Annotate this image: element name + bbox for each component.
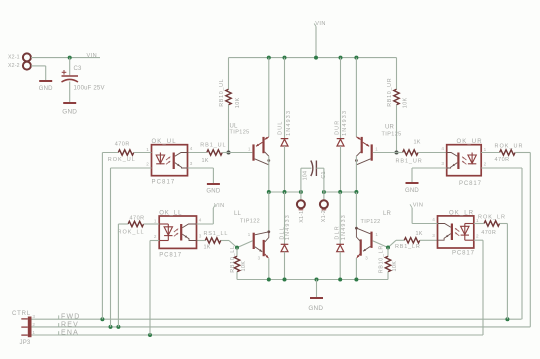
svg-text:LR: LR [383, 211, 392, 217]
svg-text:1: 1 [375, 232, 378, 237]
wire UL base [229, 152, 253, 154]
svg-text:TIP122: TIP122 [361, 219, 381, 225]
wire LR emitter down [355, 258, 357, 280]
connector X2 pin X2-2 [23, 62, 31, 70]
svg-text:RB10_LL: RB10_LL [230, 245, 236, 272]
svg-text:OK_UL: OK_UL [152, 139, 177, 145]
wire C1 left lead [300, 168, 302, 192]
wire ground rail [237, 279, 388, 281]
wire LR base link [396, 239, 404, 241]
node UR base junction [395, 151, 399, 155]
wire RB1_UR leads [397, 152, 403, 154]
node REV junctions [109, 325, 113, 329]
wire OK_UL pin3 to ground [188, 167, 214, 169]
ground (main) [310, 297, 323, 299]
svg-text:ROK_LL: ROK_LL [118, 230, 145, 236]
transistor UL TIP125 (PNP darlington) [252, 137, 264, 161]
wire RB10_UL to UL base node [228, 105, 230, 153]
wire OK_UL pin2 to REV drop [111, 167, 152, 169]
svg-text:2: 2 [476, 234, 479, 239]
capacitor C3 plus sign [62, 70, 67, 75]
svg-text:PC817: PC817 [159, 253, 182, 259]
svg-text:3: 3 [199, 234, 202, 239]
wire DUL top [284, 58, 286, 138]
svg-text:RB1_UL: RB1_UL [200, 142, 226, 148]
wire UL collector down [268, 156, 270, 192]
wire RB10_UR to UR base node [396, 105, 398, 153]
wire net ENA [32, 334, 484, 336]
svg-text:10K: 10K [392, 261, 398, 272]
wire net FWD [32, 318, 522, 320]
ground for X2-2 [39, 80, 52, 82]
svg-text:1: 1 [375, 146, 378, 151]
OK_LL light arrows [174, 229, 178, 232]
wire DLL top [284, 192, 286, 244]
wire C3 bottom [69, 82, 71, 103]
svg-text:3: 3 [190, 161, 193, 166]
svg-text:1K: 1K [414, 139, 421, 145]
wire RB1_LR right lead [420, 239, 438, 241]
resistor ROK_UL 470R [118, 150, 134, 155]
wire OK_LR pin1 to FWD drop [474, 223, 484, 225]
wire X2-2 to ground [31, 65, 46, 67]
svg-text:4: 4 [432, 217, 435, 222]
svg-text:RB1_LR: RB1_LR [395, 244, 421, 250]
wire OK_LR pin4 to VIN [412, 223, 437, 225]
wire LL collector from motor rail [268, 192, 270, 232]
wire OK_LR pin2 drop to ENA [482, 240, 484, 335]
wire DLL bottom [284, 252, 286, 280]
svg-text:1: 1 [32, 330, 35, 335]
svg-text:VIN: VIN [87, 53, 98, 59]
svg-text:1: 1 [484, 147, 487, 152]
svg-text:1N4933: 1N4933 [342, 110, 348, 136]
svg-text:4: 4 [199, 218, 202, 223]
wire OK_LL pin2 drop to ENA [149, 241, 151, 336]
svg-text:2: 2 [484, 161, 487, 166]
resistor RB1_LR 1K [404, 238, 420, 243]
capacitor C3 plates [62, 75, 79, 77]
wire UR emitter to rail [355, 58, 357, 137]
wire rail left drop [228, 58, 230, 90]
svg-text:1N4933: 1N4933 [285, 214, 291, 240]
svg-text:1K: 1K [202, 158, 209, 164]
resistor RB10_LL 10K [234, 256, 239, 272]
wire OK_LL pin1 drop to REV [117, 224, 119, 327]
resistor ROK_LL 470R [128, 221, 143, 226]
connector JP3 [28, 317, 32, 338]
svg-text:FWD: FWD [61, 314, 81, 321]
svg-text:GND: GND [206, 189, 220, 195]
node FWD junctions [100, 317, 104, 321]
svg-text:2: 2 [154, 234, 157, 239]
svg-text:C3: C3 [74, 66, 83, 72]
transistor LL TIP122 (NPN darlington) [253, 233, 265, 256]
svg-text:GND: GND [39, 86, 53, 92]
diode DLL 1N4933 [281, 244, 289, 251]
wire LR collector from motor rail [355, 192, 357, 228]
wire OK_UR pin2 to FWD drop [481, 167, 522, 169]
wire C3 top [69, 58, 71, 76]
connector X2 pin X2-1 [23, 53, 31, 61]
wire VIN stub [315, 27, 317, 58]
svg-text:10K: 10K [241, 261, 247, 272]
ground for OK_UR [406, 182, 419, 184]
svg-text:104: 104 [303, 171, 309, 181]
OK_LR phototransistor [451, 224, 453, 241]
svg-text:1N4933: 1N4933 [341, 214, 347, 240]
svg-text:X1-1: X1-1 [299, 211, 305, 223]
svg-text:3: 3 [32, 314, 35, 319]
wire rail right drop [396, 58, 398, 90]
svg-text:2: 2 [146, 161, 149, 166]
OK_LR internal LED [461, 224, 474, 241]
diode DLR 1N4933 [336, 244, 344, 251]
wire motor rail left [269, 191, 301, 193]
svg-text:OK_UR: OK_UR [457, 139, 483, 145]
wire RB10_LR top [387, 248, 389, 257]
svg-text:JP3: JP3 [20, 340, 31, 346]
wire OK_LR pin1 drop to FWD [506, 224, 508, 320]
wire DUR bottom [340, 146, 342, 192]
svg-text:DUL: DUL [277, 121, 283, 135]
svg-text:GND: GND [308, 305, 323, 312]
svg-text:RB10_LR: RB10_LR [379, 245, 385, 273]
svg-text:VIN: VIN [315, 21, 326, 27]
svg-text:4: 4 [190, 146, 193, 151]
wire UR base [373, 152, 397, 154]
svg-text:RB10_UL: RB10_UL [219, 79, 225, 107]
wire DUR top [340, 58, 342, 138]
wire OK_LL pin2 to ENA drop [150, 240, 159, 242]
wire RS1_LL left lead [197, 240, 206, 242]
resistor ROK_UR 470R [500, 150, 516, 155]
svg-text:1: 1 [248, 146, 251, 151]
resistor ROK_LR 470R [484, 221, 500, 226]
connector X1 pin X1-1 [300, 192, 302, 200]
node motor rail left junctions [267, 190, 271, 194]
svg-text:X2-1: X2-1 [8, 55, 20, 61]
op-amp OK_LL PC817 box [159, 216, 196, 248]
resistor RB1_UL 1K [207, 150, 222, 155]
connector X1 pin X1-2 [323, 192, 325, 200]
wire OK_UL pin1 drop to FWD [101, 153, 103, 320]
resistor RB10_LR 10K [385, 256, 390, 272]
op-amp OK_UL PC817 box [152, 145, 188, 176]
svg-text:PC817: PC817 [459, 181, 482, 187]
op-amp OK_LR PC817 box [438, 216, 474, 248]
wire net REV [32, 326, 531, 328]
svg-text:TIP125: TIP125 [230, 129, 250, 135]
svg-text:ENA: ENA [61, 329, 79, 336]
wire C1 right lead [316, 167, 324, 169]
svg-text:REV: REV [61, 321, 79, 328]
node motor rail right junctions [322, 190, 326, 194]
svg-text:100uF 25V: 100uF 25V [74, 86, 105, 92]
svg-text:RB10_UR: RB10_UR [387, 78, 393, 107]
OK_UL light arrows [166, 157, 170, 160]
svg-text:X1-2: X1-2 [321, 210, 327, 222]
wire DUL bottom [284, 146, 286, 192]
svg-text:3: 3 [258, 256, 261, 261]
svg-text:1: 1 [248, 232, 251, 237]
svg-text:VIN: VIN [413, 202, 424, 208]
svg-text:OK_LL: OK_LL [159, 210, 182, 216]
svg-text:10K: 10K [235, 97, 241, 108]
capacitor C1 104 [311, 161, 313, 177]
svg-text:UR: UR [385, 124, 395, 130]
svg-text:1N4933: 1N4933 [286, 110, 292, 136]
ground for C3 [63, 102, 76, 104]
wire OK_UL pin1 to FWD drop [102, 152, 118, 154]
svg-text:CTRL: CTRL [12, 311, 31, 317]
op-amp OK_UR PC817 box [447, 145, 482, 176]
svg-text:ROK_UL: ROK_UL [108, 157, 136, 163]
wire VIN top rail [229, 57, 397, 59]
wire ground stub [316, 280, 318, 298]
ground for OK_UL [207, 183, 220, 185]
svg-text:RS1_LL: RS1_LL [204, 231, 229, 237]
svg-text:ROK_LR: ROK_LR [478, 215, 506, 221]
OK_LL phototransistor [180, 224, 182, 241]
wire LL emitter down [268, 258, 270, 279]
OK_UL internal LED [156, 153, 164, 165]
transistor LR TIP122 (NPN darlington, mirrored) [360, 232, 373, 256]
wire OK_UR pin1 to REV drop [481, 152, 499, 154]
svg-text:2: 2 [32, 322, 35, 327]
OK_LL internal LED [159, 224, 172, 241]
wire OK_UR pin3 to ground [412, 167, 447, 169]
wire OK_LL pin4 to VIN [197, 223, 214, 225]
wire OK_LL pin1 to REV drop [118, 223, 128, 225]
wire DLR bottom [339, 252, 341, 280]
diode DUL 1N4933 [281, 139, 289, 146]
svg-text:OK_LR: OK_LR [449, 210, 474, 216]
svg-text:RB1_UR: RB1_UR [396, 159, 423, 165]
wire X2-1 to VIN [31, 57, 100, 59]
wire RB10_LR bottom [387, 272, 389, 280]
svg-text:TIP125: TIP125 [382, 132, 402, 138]
resistor RB1_UR 1K [403, 150, 419, 155]
svg-text:3: 3 [441, 161, 444, 166]
node VIN rail junctions [267, 56, 271, 60]
diode DUR 1N4933 [337, 139, 345, 146]
svg-text:4: 4 [441, 146, 444, 151]
svg-text:GND: GND [405, 188, 419, 194]
svg-text:470R: 470R [130, 215, 145, 221]
OK_UL phototransistor [173, 153, 175, 170]
wire LL base link [220, 240, 229, 242]
svg-text:1K: 1K [416, 231, 423, 237]
resistor RB10_UR 10K [394, 89, 399, 105]
OK_LR light arrows [455, 228, 459, 231]
node ENA junction [148, 333, 152, 337]
svg-text:470R: 470R [115, 142, 130, 148]
wire DLR top [339, 192, 341, 244]
svg-text:470R: 470R [481, 230, 496, 236]
svg-text:X2-2: X2-2 [8, 63, 20, 69]
svg-text:DLR: DLR [335, 225, 341, 239]
svg-text:PC817: PC817 [452, 250, 475, 256]
svg-text:1: 1 [154, 219, 157, 224]
svg-text:GND: GND [62, 108, 77, 115]
svg-text:1K: 1K [204, 244, 211, 250]
wire OK_UR pin2 drop to FWD [521, 168, 523, 319]
svg-text:PC817: PC817 [152, 180, 176, 186]
svg-text:DUR: DUR [334, 120, 340, 135]
svg-text:10K: 10K [402, 97, 408, 108]
svg-text:3: 3 [365, 256, 368, 261]
svg-text:LL: LL [234, 211, 242, 217]
transistor UR TIP125 (PNP darlington, mirrored) [361, 137, 373, 161]
node VIN junction at C3 [68, 56, 72, 60]
svg-text:1: 1 [146, 147, 149, 152]
svg-text:470R: 470R [495, 157, 510, 163]
resistor RS1_LL 1K [205, 238, 220, 243]
OK_UR light arrows [462, 157, 466, 160]
svg-text:3: 3 [432, 233, 435, 238]
wire OK_LR pin2 to ENA drop [474, 239, 483, 241]
node LR base junction [386, 246, 390, 250]
svg-text:VIN: VIN [214, 203, 225, 209]
wire motor rail right [324, 191, 357, 193]
node UL base junction [227, 151, 231, 155]
wire RB10_LL bottom [236, 272, 238, 280]
wire UR collector down [355, 156, 357, 192]
svg-text:ROK_UR: ROK_UR [495, 144, 524, 150]
OK_UR phototransistor [457, 153, 459, 170]
wire UL emitter to rail [268, 58, 270, 137]
node LL base junction [235, 246, 239, 250]
node ground rail junctions [267, 278, 271, 282]
wire RB1_UL leads [188, 152, 207, 154]
wire OK_UR pin1 drop to REV [529, 153, 531, 327]
resistor RB10_UL 10K [226, 89, 231, 105]
OK_UR internal LED [468, 153, 476, 165]
wire RB10_LL top [236, 248, 238, 257]
wire OK_UL pin2 drop to REV [110, 168, 112, 327]
svg-text:TIP122: TIP122 [240, 218, 260, 224]
